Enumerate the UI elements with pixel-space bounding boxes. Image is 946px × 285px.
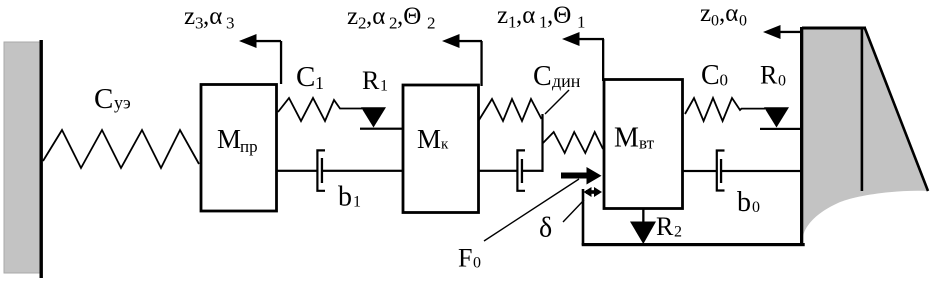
svg-text:1: 1 <box>577 13 586 32</box>
right wheel top edge <box>802 27 866 30</box>
svg-text:b: b <box>338 182 352 213</box>
svg-text:М: М <box>217 124 241 154</box>
damper right rod <box>522 170 543 172</box>
svg-text:3: 3 <box>226 14 235 33</box>
svg-text:,α: ,α <box>366 3 385 30</box>
svg-text:0: 0 <box>752 199 760 216</box>
damper piston <box>521 159 523 183</box>
friction element R0 <box>764 107 789 127</box>
force arrow F0 <box>561 173 587 179</box>
svg-text:b: b <box>737 187 751 218</box>
damper b1 right rod <box>322 170 403 172</box>
svg-text:R: R <box>656 212 674 241</box>
svg-text:0: 0 <box>473 255 481 272</box>
motion arrow z1,a1,Th1 <box>566 38 604 40</box>
svg-text:C: C <box>296 61 315 93</box>
motion arrow z3,a3 <box>243 40 281 42</box>
wire: stem from Мвт to arrow z1 <box>602 39 604 81</box>
right wheel diagonal edge <box>865 28 928 192</box>
right wheel gray body <box>803 28 928 236</box>
spring Cдин upper section <box>479 99 542 121</box>
wire: stem from Мпр to arrow z3 <box>280 41 282 84</box>
spring C1 <box>278 98 362 121</box>
damper b0 cylinder bracket <box>717 151 725 191</box>
svg-text:М: М <box>417 124 441 154</box>
svg-text:,Θ: ,Θ <box>397 3 421 30</box>
mass Мк <box>403 85 479 213</box>
svg-text:0: 0 <box>711 13 719 30</box>
left wall gray column <box>4 42 40 273</box>
spring Cдин lower section <box>543 132 603 153</box>
svg-text:R: R <box>760 61 778 90</box>
svg-text:вт: вт <box>639 134 655 153</box>
svg-text:R: R <box>362 66 380 95</box>
svg-text:,Θ: ,Θ <box>547 2 571 29</box>
svg-text:0: 0 <box>739 13 747 30</box>
svg-text:z: z <box>700 0 711 27</box>
svg-text:пр: пр <box>240 137 258 156</box>
damper b1: left rod <box>277 170 318 172</box>
svg-text:,α: ,α <box>719 0 738 27</box>
spring Cуэ <box>43 130 199 168</box>
svg-text:уэ: уэ <box>114 93 131 113</box>
svg-text:1: 1 <box>380 78 388 95</box>
damper b1 piston <box>321 158 323 183</box>
right wall face line <box>800 27 803 245</box>
leader line to delta label <box>563 200 584 222</box>
wire: stem from Мк to arrow z2 <box>480 41 482 86</box>
friction element R2 below Мвт <box>642 208 644 223</box>
mass Мпр <box>201 85 277 212</box>
left wall black face line <box>40 40 43 278</box>
svg-text:,α: ,α <box>516 2 535 29</box>
damper b0: left rod <box>683 170 717 172</box>
svg-text:дин: дин <box>552 71 581 91</box>
svg-text:0: 0 <box>720 71 729 90</box>
svg-text:к: к <box>441 137 449 153</box>
right wheel inner vertical line <box>861 28 864 191</box>
damper cylinder bracket <box>517 150 525 190</box>
svg-text:z: z <box>497 2 508 29</box>
friction element R1 <box>361 107 386 127</box>
damper b1 cylinder bracket <box>317 150 325 190</box>
svg-text:М: М <box>614 123 639 154</box>
svg-text:С: С <box>94 83 113 115</box>
wire: vertical link of Cдин <box>541 114 543 172</box>
damper between Мк and Cдин link: left rod <box>478 170 518 172</box>
wire under R0 to wall <box>760 128 802 130</box>
base line under Мвт to right wall <box>582 243 805 246</box>
svg-text:z: z <box>347 3 358 30</box>
svg-text:2: 2 <box>427 14 436 33</box>
leader line to F0 label <box>484 179 579 241</box>
svg-text:F: F <box>458 244 472 273</box>
motion arrow z0,a0 <box>767 31 803 33</box>
damper b0 piston <box>720 159 722 183</box>
svg-text:δ: δ <box>539 213 552 244</box>
svg-text:0: 0 <box>778 73 786 90</box>
wire: vertical from gap to base line <box>582 189 585 245</box>
svg-text:1: 1 <box>353 194 361 211</box>
gap delta double arrow <box>586 190 599 194</box>
svg-text:1: 1 <box>315 73 324 93</box>
svg-text:С: С <box>533 61 552 92</box>
mass Мвт <box>604 80 683 209</box>
wire under R1 to Мк <box>360 128 403 130</box>
damper b0 right rod <box>721 170 802 172</box>
spring C0 <box>685 98 765 121</box>
svg-text:2: 2 <box>674 224 682 241</box>
svg-text:C: C <box>701 60 720 91</box>
leader line to Cдин label <box>545 90 569 114</box>
svg-text:z: z <box>184 3 195 30</box>
svg-text:,α: ,α <box>203 3 222 30</box>
motion arrow z2,a2,Th2 <box>446 40 482 42</box>
